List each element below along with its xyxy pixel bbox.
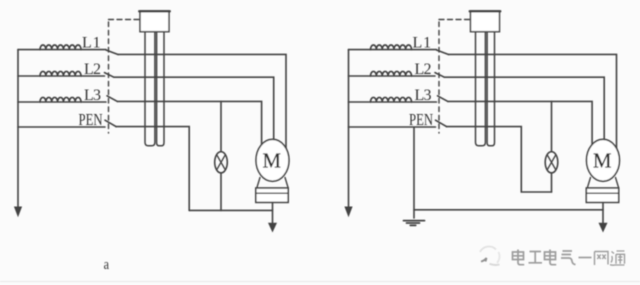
svg-text:a: a [104, 257, 110, 273]
svg-text:PEN: PEN [79, 110, 103, 129]
svg-text:M: M [263, 148, 282, 172]
svg-text:2: 2 [93, 61, 101, 78]
svg-text:L: L [82, 34, 92, 51]
svg-text:1: 1 [93, 34, 101, 51]
svg-text:3: 3 [93, 87, 101, 104]
